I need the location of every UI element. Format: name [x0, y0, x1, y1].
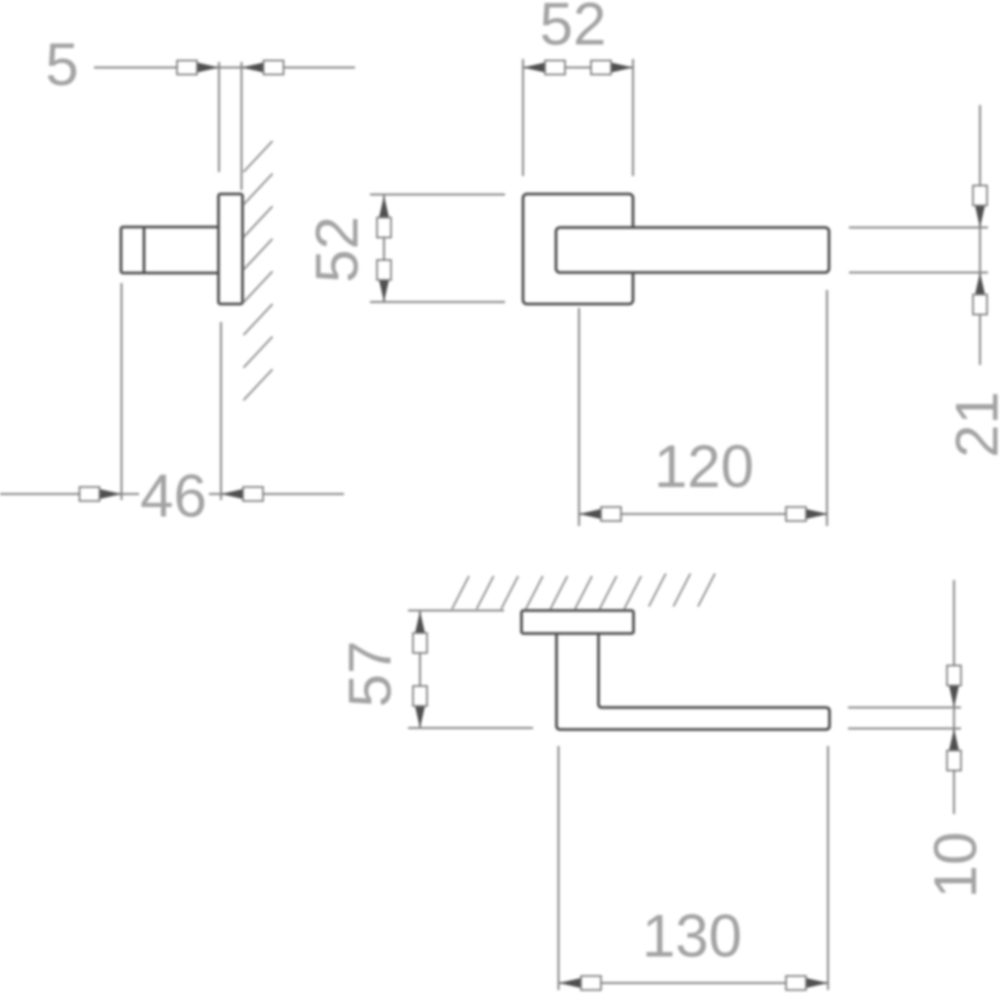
dim 130 arrow left [559, 976, 601, 990]
dim 5 arrow left [177, 61, 219, 75]
svg-text:130: 130 [642, 903, 742, 970]
dim 46 text [139, 463, 209, 530]
dim 52 left text (rotated) [304, 216, 371, 283]
dim 21 arrow upper [973, 186, 987, 228]
dim 5 dimension line [94, 67, 355, 69]
dim 57 text (rotated) [337, 641, 404, 708]
dim 130 extension line left [558, 746, 560, 990]
dim 46 dimension line [0, 493, 344, 495]
wall hatching (side view) [244, 141, 273, 400]
svg-text:46: 46 [140, 463, 207, 530]
svg-text:10: 10 [922, 832, 989, 899]
handle neck stub (side view) [121, 227, 219, 273]
dim 52 top dimension line [522, 67, 634, 69]
dim 120 extension line left [578, 308, 580, 526]
dim 10 arrow lower [947, 729, 961, 771]
dim 130 arrow right [786, 976, 828, 990]
svg-text:52: 52 [304, 216, 371, 283]
dim 21 text (rotated) [944, 391, 1000, 458]
dim 46 extension line right [220, 322, 222, 500]
dim 52 left arrow up [377, 196, 391, 238]
dim 21 extension line bottom [849, 272, 988, 274]
dim 10 text (rotated) [922, 832, 989, 899]
dim 57 dimension line [419, 611, 421, 728]
dim 57 extension line bottom [408, 727, 533, 729]
dim 52 top arrow right [591, 61, 633, 75]
lever handle (front view) [556, 228, 829, 273]
dim 57 arrow up [413, 611, 427, 653]
dim 10 extension line top [848, 707, 961, 709]
dim 120 arrow right [786, 507, 828, 521]
dim 46 arrow right [221, 487, 263, 501]
dim 130 extension line right [827, 746, 829, 990]
rosette plate (top view) [522, 611, 634, 634]
dim 120 extension line right [826, 290, 828, 526]
wall hatching (top view) [452, 574, 715, 610]
rosette plate (side view) [219, 194, 243, 304]
dim 10 arrow upper [947, 666, 961, 708]
dim 10 dimension line [953, 580, 955, 814]
dim 52 left dimension line [383, 196, 385, 303]
dim 5 extension line left [218, 62, 220, 172]
svg-text:52: 52 [540, 0, 607, 58]
dim 52 top extension line right [632, 59, 634, 176]
dim 120 dimension line [579, 513, 828, 515]
dim 5 extension line right [241, 62, 243, 190]
dim 130 dimension line [559, 982, 828, 984]
dim 57 extension line top [408, 610, 504, 612]
dim 52 top arrow left [523, 61, 565, 75]
dim 52 top extension line left [522, 59, 524, 176]
dim 5 arrow right [242, 61, 284, 75]
dim 10 extension line bottom [848, 728, 961, 730]
dim 46 arrow left [80, 487, 122, 501]
svg-text:120: 120 [654, 433, 754, 500]
dim 52 left extension line top [370, 194, 505, 196]
dim 120 arrow left [579, 507, 621, 521]
dim 21 extension line top [849, 227, 988, 229]
dim 21 arrow lower [973, 273, 987, 315]
dim 52 left arrow down [377, 260, 391, 302]
svg-text:5: 5 [45, 31, 78, 98]
dim 52 left extension line bottom [370, 301, 505, 303]
dim 21 dimension line [979, 105, 981, 365]
svg-text:21: 21 [944, 391, 1000, 458]
svg-text:57: 57 [337, 641, 404, 708]
dim 57 arrow down [413, 686, 427, 728]
rosette square (front view) [523, 194, 633, 304]
dim 46 extension line left [121, 283, 123, 500]
handle neck (top view) [557, 632, 830, 730]
